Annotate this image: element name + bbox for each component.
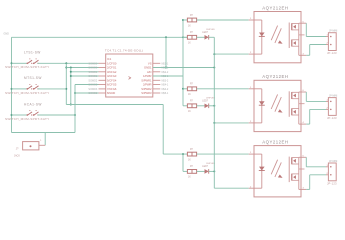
svg-text:1K: 1K: [188, 94, 191, 96]
svg-text:SOMD3: SOMD3: [88, 88, 98, 91]
svg-text:8/GND: 8/GND: [107, 91, 115, 95]
svg-text:SOMD0: SOMD0: [88, 62, 98, 65]
svg-text:1K: 1K: [188, 177, 191, 179]
svg-text:SWITCH_MOM-SPDT-KATY: SWITCH_MOM-SPDT-KATY: [5, 65, 49, 69]
svg-text:SOMD2: SOMD2: [88, 79, 98, 82]
svg-text:S/PWR2: S/PWR2: [141, 87, 152, 91]
svg-text:S/PWR1: S/PWR1: [141, 78, 152, 82]
svg-text:LED?: LED?: [202, 100, 208, 102]
svg-text:GND1: GND1: [144, 66, 152, 70]
svg-text:2/CFG1: 2/CFG1: [107, 66, 117, 70]
svg-text:JP-123: JP-123: [327, 51, 337, 55]
svg-text:1/CFG0: 1/CFG0: [107, 61, 117, 65]
svg-text:3/CFG2: 3/CFG2: [107, 70, 117, 74]
svg-text:JP-MINI: JP-MINI: [329, 161, 338, 163]
svg-text:1K: 1K: [188, 25, 191, 27]
svg-text:SWITCH_MOM-SPDT-KATY: SWITCH_MOM-SPDT-KATY: [5, 117, 49, 121]
svg-text:A/D: A/D: [147, 70, 152, 74]
svg-text:JP-MINI: JP-MINI: [329, 31, 338, 33]
svg-text:JP-MINI: JP-MINI: [329, 95, 338, 97]
svg-text:HCA1-SW: HCA1-SW: [24, 102, 42, 106]
svg-text:JACK: JACK: [14, 154, 20, 157]
svg-text:5/CFG4: 5/CFG4: [107, 78, 117, 82]
svg-text:JP-123: JP-123: [327, 116, 337, 120]
svg-text:1K: 1K: [188, 43, 191, 45]
svg-text:SWITCH_MOM-SPDT-KATY: SWITCH_MOM-SPDT-KATY: [5, 91, 49, 95]
svg-text:IC1: IC1: [107, 57, 112, 61]
svg-text:TC4.T1.C1.74-DE-SO(L): TC4.T1.C1.74-DE-SO(L): [105, 48, 143, 52]
svg-text:7/CFG6: 7/CFG6: [107, 87, 117, 91]
svg-text:GND: GND: [4, 33, 10, 36]
svg-text:MTS1-SW: MTS1-SW: [24, 76, 42, 80]
svg-text:1K: 1K: [188, 159, 191, 161]
svg-text:N$2-2: N$2-2: [162, 71, 169, 74]
svg-text:VS: VS: [148, 61, 152, 65]
svg-text:SOMD1: SOMD1: [88, 71, 98, 74]
svg-text:CHIPLED: CHIPLED: [206, 29, 216, 31]
svg-text:1/PWR: 1/PWR: [143, 74, 152, 78]
svg-text:COMD0: COMD0: [88, 67, 98, 70]
svg-text:COMD3: COMD3: [88, 92, 98, 95]
svg-text:AQY212EH: AQY212EH: [262, 5, 288, 10]
svg-text:N$4-2: N$4-2: [162, 88, 169, 91]
svg-text:S/PWR3: S/PWR3: [141, 91, 152, 95]
svg-text:AQY212EH: AQY212EH: [262, 74, 288, 79]
svg-text:AQY212EH: AQY212EH: [262, 139, 288, 144]
svg-text:N$5-1: N$5-1: [162, 92, 169, 95]
svg-text:1K: 1K: [188, 111, 191, 113]
svg-text:N$4-1: N$4-1: [162, 84, 169, 87]
svg-text:N$1-1: N$1-1: [162, 62, 169, 65]
svg-text:LED?: LED?: [202, 32, 208, 34]
svg-text:4/CFG3: 4/CFG3: [107, 74, 117, 78]
svg-text:COMD1: COMD1: [88, 75, 98, 78]
svg-text:6/CFG5: 6/CFG5: [107, 83, 117, 87]
svg-text:N$3-2: N$3-2: [162, 79, 169, 82]
svg-text:JP-123: JP-123: [327, 181, 337, 185]
svg-text:COMD2: COMD2: [88, 84, 98, 87]
svg-text:LED?: LED?: [202, 166, 208, 168]
svg-text:2/PWR: 2/PWR: [143, 83, 152, 87]
svg-text:LTS1-SW: LTS1-SW: [24, 51, 41, 55]
